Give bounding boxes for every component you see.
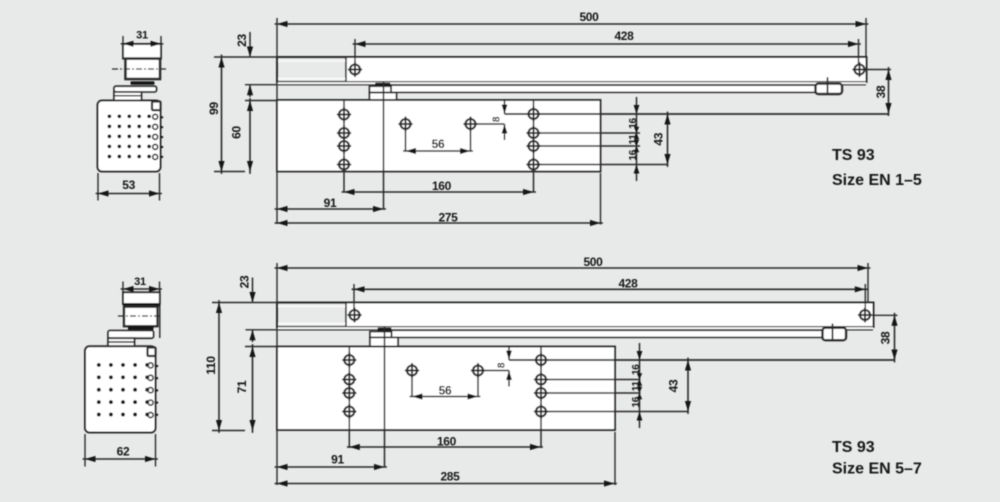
- side view EN5-7: arm shoe: [128, 326, 154, 330]
- svg-text:38: 38: [874, 85, 888, 98]
- svg-text:56: 56: [432, 137, 445, 151]
- svg-text:160: 160: [437, 435, 457, 449]
- side view EN1-5: corner notch on body: [152, 102, 161, 111]
- fixing hole row line 3 EN5-7: [541, 392, 641, 394]
- slide rail EN1-5: outline 500 long: [277, 57, 867, 82]
- dimension 8 EN1-5: [504, 99, 506, 114]
- slide rail EN5-7: outline: [277, 303, 874, 328]
- dimension 285 EN5-7: [614, 432, 616, 485]
- side view EN5-7: slider block: [124, 307, 158, 327]
- arm hole drop lines EN1-5: [405, 117, 407, 152]
- arm fixing holes middle EN1-5: [401, 119, 411, 129]
- svg-text:23: 23: [235, 34, 249, 47]
- slide rail EN1-5: white channel interior: [346, 58, 866, 82]
- closer body EN1-5: 275 long: [277, 100, 601, 172]
- side view EN1-5: arm shoe below slider: [131, 81, 155, 84]
- side view EN5-7: channel lip band: [123, 304, 160, 307]
- svg-text:428: 428: [614, 29, 634, 43]
- fixing holes left column EN5-7: [344, 355, 354, 365]
- fixing hole row line 4 EN5-7: [541, 411, 688, 413]
- svg-text:16: 16: [631, 364, 642, 375]
- svg-text:TS 93: TS 93: [832, 147, 875, 164]
- svg-text:Size EN 5–7: Size EN 5–7: [832, 461, 922, 478]
- pinion housing upper block EN5-7: [370, 332, 392, 338]
- svg-text:285: 285: [440, 470, 460, 484]
- svg-text:38: 38: [879, 331, 893, 344]
- slide rail EN1-5: inner bevel highlights of end cap: [279, 60, 346, 62]
- side view EN1-5: arm flange plate: [114, 86, 157, 92]
- dimension 428 EN1-5: [353, 43, 861, 45]
- slider pin EN5-7: [832, 324, 834, 340]
- svg-text:31: 31: [134, 276, 146, 288]
- slider pin EN1-5: [827, 77, 829, 93]
- pinion axis line EN5-7: [384, 327, 386, 468]
- dimension 160 EN1-5: [342, 191, 536, 193]
- dimension 38 EN5-7: [871, 314, 898, 316]
- dimension 71 EN5-7: [245, 346, 277, 348]
- dimension 500 EN1-5: [275, 23, 869, 25]
- rail fixing screw left EN1-5: [354, 39, 356, 64]
- svg-text:11: 11: [631, 380, 642, 391]
- side view EN5-7: regulating valves right edge: [148, 363, 153, 368]
- dimension chain 16/11/16 EN1-5: [636, 97, 638, 181]
- dimension 91 EN5-7: [275, 466, 387, 468]
- dimension 38 EN1-5: [866, 69, 892, 71]
- svg-text:62: 62: [117, 445, 130, 459]
- dimension 53 (side view EN1-5 body width): [97, 173, 99, 201]
- svg-text:500: 500: [579, 10, 599, 24]
- sliding arm EN1-5: [391, 85, 841, 92]
- fixing hole row line 2 EN1-5: [534, 132, 641, 134]
- right fixing-hole column line EN5-7: [540, 347, 542, 449]
- rail fixing screw right EN5-7: [864, 284, 866, 310]
- svg-text:275: 275: [438, 211, 458, 225]
- side view EN5-7: right edge line: [159, 289, 161, 338]
- dimension 56 EN1-5: [403, 150, 473, 152]
- slide rail EN5-7: bottom lip strip: [278, 327, 873, 330]
- side view EN5-7: slide rail cross-section channel: [123, 292, 160, 304]
- slide rail EN5-7: end cap separation line: [345, 303, 347, 328]
- dimension 31 (side view EN1-5 rail width): [122, 36, 124, 48]
- dimension 60 EN1-5: [245, 100, 277, 102]
- svg-text:31: 31: [136, 30, 148, 42]
- slide rail EN5-7: white channel interior: [346, 303, 873, 326]
- svg-text:16: 16: [628, 149, 639, 160]
- fixing hole row line 1 EN5-7: [509, 359, 895, 361]
- extension line rail right EN5-7: [867, 263, 869, 303]
- svg-text:11: 11: [628, 134, 639, 145]
- pinion axis line EN1-5: [383, 82, 385, 210]
- side view EN1-5: slider centre line: [112, 68, 167, 70]
- slide rail EN1-5: bottom lip strip: [278, 82, 866, 85]
- svg-text:43: 43: [652, 132, 666, 145]
- side view EN1-5: arm flange step: [114, 92, 142, 101]
- side view EN5-7: arm flange step: [108, 338, 135, 346]
- side view EN5-7: corner notch on body: [148, 348, 156, 357]
- fixing hole row line 4 EN1-5: [534, 164, 668, 166]
- side view EN5-7: perforation dots: [97, 363, 101, 367]
- arm hole row line EN1-5: [471, 123, 505, 125]
- dimension 43 EN5-7: [687, 358, 689, 414]
- dimension 62 (side view EN5-7 body width): [84, 434, 86, 467]
- dimension 56 EN5-7: [410, 396, 481, 398]
- arm hub on pinion EN5-7: [378, 328, 392, 332]
- svg-text:91: 91: [324, 196, 337, 210]
- dimension 110 EN5-7: [212, 302, 277, 304]
- svg-text:60: 60: [230, 126, 244, 139]
- side view EN5-7: slider centre line: [118, 315, 162, 317]
- svg-text:23: 23: [238, 275, 252, 288]
- arm slider block at rail end EN1-5: [816, 84, 843, 94]
- dimension 91 EN1-5: [275, 208, 386, 210]
- arm fixing holes middle EN5-7: [407, 366, 417, 376]
- dimension 275 EN1-5: [600, 173, 602, 225]
- fixing holes left column EN1-5: [339, 110, 349, 120]
- svg-text:43: 43: [667, 379, 681, 392]
- svg-text:110: 110: [204, 356, 218, 375]
- fixing hole row line 1 EN1-5 (extends to 38 dim): [505, 113, 889, 115]
- side view EN1-5: closer body: [98, 101, 161, 172]
- dimension 43 EN1-5: [667, 112, 669, 167]
- fixing holes right column EN1-5: [529, 109, 539, 119]
- svg-text:71: 71: [235, 380, 249, 393]
- svg-text:16: 16: [631, 396, 642, 407]
- rail fixing screw right EN1-5: [858, 39, 860, 64]
- dimension 160 EN5-7: [347, 446, 543, 448]
- fixing holes right column EN5-7: [536, 355, 546, 365]
- side view EN1-5: slide rail cross-section channel: [123, 44, 161, 59]
- dimension 23 EN1-5 (rail height): [249, 32, 251, 57]
- rail fixing screw left EN5-7: [353, 284, 355, 310]
- dimension 23 EN5-7: [252, 278, 254, 303]
- dimension 99 EN1-5: [214, 56, 277, 58]
- pinion housing lower block EN5-7: [370, 337, 398, 346]
- right fixing-hole column line EN1-5: [533, 100, 535, 193]
- pinion housing upper block EN1-5: [370, 86, 392, 92]
- sliding arm EN5-7: [392, 330, 824, 337]
- svg-text:160: 160: [432, 179, 452, 193]
- fixing hole row line 3 EN1-5: [534, 145, 641, 147]
- arm slider block EN5-7: [823, 328, 847, 341]
- svg-text:53: 53: [122, 178, 135, 192]
- left fixing-hole column line EN1-5: [343, 100, 345, 193]
- svg-text:Size EN 1–5: Size EN 1–5: [832, 172, 922, 189]
- arm hub on pinion EN1-5: [375, 83, 391, 87]
- svg-text:56: 56: [439, 384, 452, 398]
- svg-text:8: 8: [492, 116, 503, 122]
- side view EN1-5: regulating valves on right edge: [153, 114, 158, 119]
- dimension chain 16/11/16 EN5-7: [639, 343, 641, 428]
- fixing hole row line 2 EN5-7: [541, 379, 641, 381]
- svg-text:428: 428: [618, 276, 638, 290]
- side view EN5-7: closer body: [85, 346, 156, 432]
- svg-text:99: 99: [207, 102, 221, 115]
- arm hole drop lines EN5-7: [411, 364, 413, 398]
- extension line at rail right end EN1-5: [865, 18, 867, 58]
- svg-text:TS 93: TS 93: [832, 439, 875, 456]
- svg-text:91: 91: [331, 453, 344, 467]
- extension line left end x=277 EN5-7: [276, 263, 278, 485]
- dimension 500 EN5-7: [275, 267, 871, 269]
- extension line at rail/body left end x=277 EN1-5: [276, 18, 278, 224]
- side view EN5-7: arm flange plate: [108, 331, 154, 339]
- dimension 428 EN5-7: [352, 288, 868, 290]
- arm hole row line EN5-7: [478, 370, 509, 372]
- slide rail EN5-7: inner bevel highlights of end cap: [279, 305, 346, 307]
- svg-text:8: 8: [497, 362, 508, 368]
- pinion housing lower block EN1-5: [370, 93, 397, 101]
- slide rail EN1-5: end cap separation line: [345, 57, 347, 82]
- side view EN1-5: slider block in channel: [126, 59, 161, 79]
- svg-text:16: 16: [628, 118, 639, 129]
- dimension 8 EN5-7: [508, 346, 510, 361]
- dimension 31 (side view EN5-7): [122, 282, 124, 293]
- svg-text:500: 500: [583, 255, 603, 269]
- side view EN1-5: perforation dots on body: [108, 114, 112, 118]
- closer body EN5-7: 285 long: [277, 347, 615, 431]
- left fixing-hole column line EN5-7: [348, 347, 350, 449]
